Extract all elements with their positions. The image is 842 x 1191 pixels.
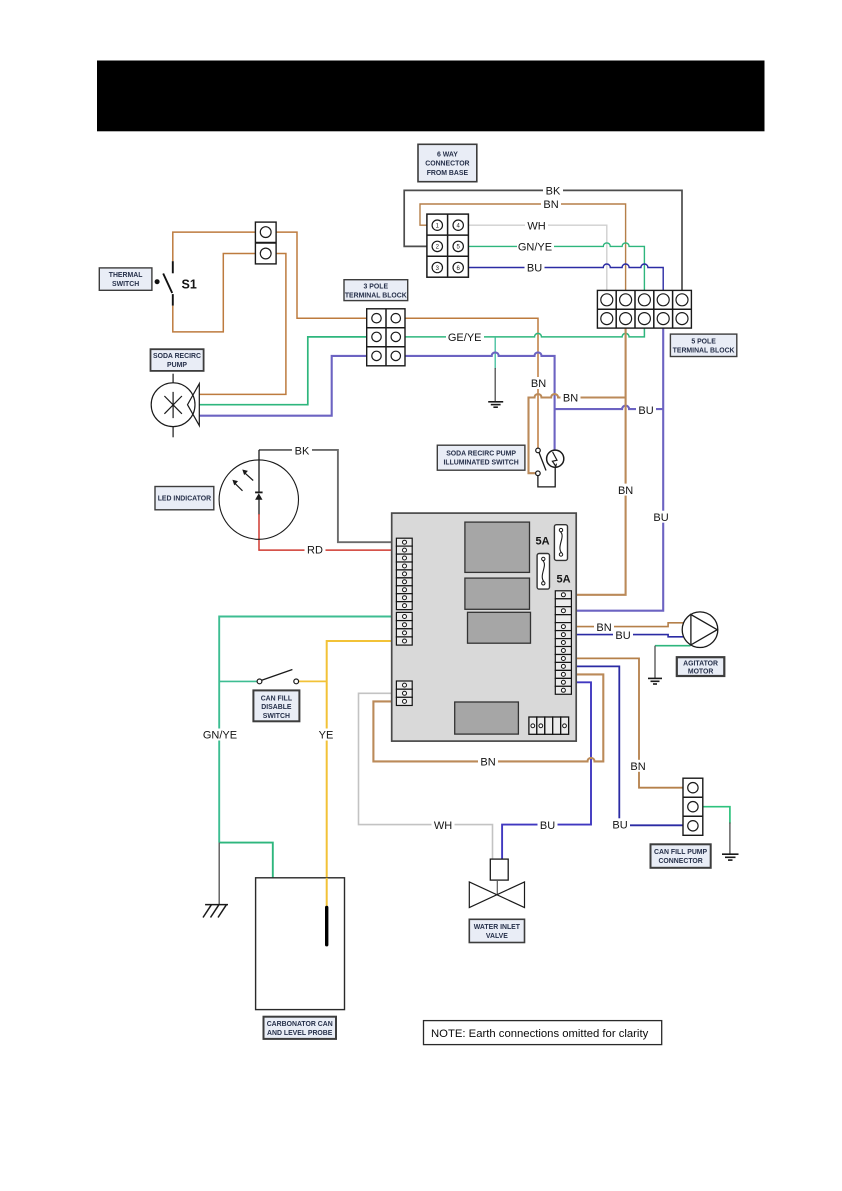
svg-text:SWITCH: SWITCH	[112, 281, 139, 288]
wire WH: 6-way pin4 across to 5-pole terminal 1	[458, 225, 607, 300]
svg-text:WH: WH	[527, 220, 545, 232]
terminal strip: controller left upper (9 poles)	[396, 538, 412, 609]
net label BK (LED top)	[292, 444, 312, 457]
lamp: illuminated switch lamp with flash symbol	[547, 450, 564, 467]
svg-text:ILLUMINATED SWITCH: ILLUMINATED SWITCH	[443, 460, 518, 467]
connector J1 pin 5	[453, 241, 463, 251]
svg-text:MOTOR: MOTOR	[688, 669, 714, 676]
svg-text:VALVE: VALVE	[486, 933, 508, 940]
wire BU: controller right cell10 long run down to can fill pump connector pin3	[563, 666, 684, 825]
wire BN: 3-pole row1 right across and down to illuminated switch top	[396, 318, 538, 448]
wire BN: controller right cell9 down to can fill pump connector pin1	[563, 658, 684, 787]
connector J1 pin 3	[432, 262, 442, 272]
net label BN (can fill pump vertical)	[628, 760, 648, 773]
wire BU: 5-pole terminal 4 long vertical down to controller right terminal 3 (violet)	[563, 319, 663, 611]
connector J1: 6 way connector from base (2x3 cells)	[427, 214, 469, 277]
ground: earth symbol below can fill pump connector	[722, 854, 739, 860]
wire GN: branch to can fill disable switch left terminal	[219, 680, 257, 682]
net label BN (bottom loop run)	[478, 755, 498, 768]
wire WH: controller bottom-left terminal 2 to water inlet valve	[359, 693, 493, 859]
svg-text:SWITCH: SWITCH	[263, 713, 290, 720]
label: AGITATOR MOTOR	[677, 657, 725, 676]
wire GN: agitator motor to earth	[655, 645, 691, 647]
label: SODA RECIRC PUMP ILLUMINATED SWITCH	[437, 445, 525, 470]
connector J1 pin 6	[453, 262, 463, 272]
carbonator can outline	[256, 878, 345, 1010]
wire BN: controller right cell11 loop under board to bottom-left terminal 3, hops BU	[373, 674, 603, 761]
svg-text:BU: BU	[615, 630, 630, 642]
svg-text:BU: BU	[540, 820, 555, 832]
wire BN: branch at y397 from col2 vertical to illuminated switch bottom, hops BU and BN	[529, 394, 626, 473]
pump M1: soda recirc pump symbol	[172, 374, 174, 438]
wire RD: LED indicator bottom to controller left terminal 2 (red)	[259, 514, 400, 550]
svg-text:NOTE: Earth connections omitte: NOTE: Earth connections omitted for clar…	[431, 1028, 649, 1040]
node: thermal switch pointer dot	[155, 279, 160, 284]
connector J1 pin 2	[432, 241, 442, 251]
terminal block TB2: 3 pole terminal block (2x3)	[367, 309, 405, 366]
wire: LED anode lead inside circle (black)	[258, 450, 260, 492]
wire BN: 2-pole block top to 3-pole block row1 left	[266, 232, 377, 318]
wire BN: controller right cell5 to agitator motor	[563, 623, 684, 627]
svg-text:GE/YE: GE/YE	[448, 332, 482, 344]
svg-text:AND LEVEL PROBE: AND LEVEL PROBE	[267, 1030, 333, 1037]
fuse F2 5A (lower)	[537, 554, 549, 590]
controller U1: main control board	[392, 513, 577, 741]
net label BU (col4 vertical)	[651, 511, 671, 524]
net label BN (above switch hop)	[529, 377, 549, 390]
wire YE: segment inside carbonator can to probe	[326, 878, 328, 907]
terminal block: controller bottom-right (5 poles)	[529, 717, 569, 734]
net label BU (can fill pump run)	[610, 818, 630, 831]
ground: earth symbol below agitator motor	[648, 678, 662, 684]
net label BU (agitator run)	[613, 629, 633, 642]
svg-text:BK: BK	[295, 446, 310, 458]
switch S2: soda recirc pump illuminated switch	[536, 448, 546, 476]
svg-text:3 POLE: 3 POLE	[364, 283, 389, 290]
svg-text:5A: 5A	[557, 574, 571, 586]
terminal strip: controller left middle (4 poles)	[396, 612, 412, 645]
svg-text:BN: BN	[630, 761, 645, 773]
svg-text:CAN FILL: CAN FILL	[261, 695, 292, 702]
svg-text:CONNECTOR: CONNECTOR	[658, 858, 702, 865]
net label BU (branch run y409)	[636, 404, 656, 417]
svg-text:CARBONATOR CAN: CARBONATOR CAN	[267, 1021, 333, 1028]
net label BN (switch branch run)	[561, 391, 581, 404]
svg-text:BN: BN	[531, 378, 546, 390]
relay K3	[468, 612, 531, 643]
label: CAN FILL PUMP CONNECTOR	[651, 844, 711, 868]
svg-text:GN/YE: GN/YE	[203, 730, 237, 742]
wire GE/YE: 3-pole row2 right to 5-pole terminal 3 bottom, hops over two BN verticals	[396, 319, 645, 337]
wire BU: controller right terminal (cell12) to water inlet valve	[502, 682, 591, 859]
net label WH (water valve run)	[432, 819, 455, 832]
wire: grey drop from green junction to chassis ground	[218, 843, 220, 905]
svg-text:GN/YE: GN/YE	[518, 242, 552, 254]
label: WATER INLET VALVE	[469, 919, 524, 942]
label: SODA RECIRC PUMP	[151, 349, 204, 371]
svg-text:BN: BN	[596, 622, 611, 634]
net label WH (top run)	[525, 219, 548, 232]
svg-text:SODA RECIRC: SODA RECIRC	[153, 353, 201, 360]
label: LED INDICATOR	[155, 487, 214, 510]
svg-text:TERMINAL BLOCK: TERMINAL BLOCK	[673, 347, 735, 354]
wire BK: 6-way pin2 up and across to 5-pole terminal 5	[404, 190, 682, 299]
svg-text:LED INDICATOR: LED INDICATOR	[158, 496, 211, 503]
switch S3: can fill disable switch	[257, 670, 299, 684]
net label BU (top run)	[525, 262, 545, 275]
relay K1	[465, 522, 530, 572]
fuse F1 5A (upper)	[554, 525, 567, 561]
valve V1: water inlet valve coil box	[490, 859, 508, 880]
terminal block TB3: 5 pole terminal block (5x2)	[597, 290, 691, 328]
net label BN (top run)	[541, 198, 561, 211]
label: 3 POLE TERMINAL BLOCK	[344, 280, 408, 301]
svg-text:WATER INLET: WATER INLET	[474, 924, 521, 931]
svg-text:FROM BASE: FROM BASE	[427, 170, 469, 177]
net label BK (top run)	[543, 184, 563, 197]
svg-text:SODA RECIRC PUMP: SODA RECIRC PUMP	[446, 450, 516, 457]
wire: lamp bottom loop to switch bottom terminal (black)	[538, 467, 555, 487]
svg-text:CONNECTOR: CONNECTOR	[425, 161, 469, 168]
net label GE/YE (3-pole to 5-pole run)	[446, 331, 484, 344]
svg-text:AGITATOR: AGITATOR	[683, 660, 718, 667]
label: THERMAL SWITCH	[99, 268, 152, 290]
connector J2: can fill pump connector (3 poles)	[683, 778, 703, 835]
note: earth connections note box	[424, 1021, 662, 1045]
wire BN: thermal switch S1 top to 2-pole terminal block top	[173, 232, 266, 261]
terminal strip: controller right (13 poles)	[555, 591, 571, 694]
probe: level probe inside can	[325, 908, 328, 945]
svg-text:5A: 5A	[536, 536, 550, 548]
wire GN: can fill pump connector pin2 to earth	[693, 807, 730, 824]
wire BU: soda recirc pump to 3-pole block row3 left (violet)	[200, 356, 377, 416]
wire: grey drop to earth below can fill pump connector	[729, 823, 731, 855]
svg-text:6 WAY: 6 WAY	[437, 151, 458, 158]
svg-text:DISABLE: DISABLE	[261, 704, 292, 711]
terminal block TB1: 2-pole block above thermal switch	[255, 222, 276, 264]
svg-text:BU: BU	[527, 263, 542, 275]
svg-text:BU: BU	[612, 820, 627, 832]
label: CAN FILL DISABLE SWITCH	[253, 690, 299, 721]
thermal switch S1	[163, 261, 173, 305]
wire BN: 5-pole terminal 2 long vertical down to controller right terminal 1	[563, 319, 625, 595]
wire BK: LED indicator top to controller left terminal 1 (grey)	[259, 450, 400, 542]
wire BU: controller right cell6 to agitator motor	[563, 635, 684, 637]
svg-text:BK: BK	[546, 186, 561, 198]
svg-text:WH: WH	[434, 820, 452, 832]
wire: grey drop from agitator green to earth symbol	[654, 646, 656, 679]
wire YE: can fill disable switch right terminal stub	[298, 680, 326, 682]
label: 6 WAY CONNECTOR FROM BASE	[418, 144, 477, 181]
wire BN: 6-way pin1 up and across to 5-pole terminal 2	[420, 204, 626, 300]
wire: earth drop from GE/YE line (teal then grey)	[494, 337, 496, 369]
valve V1: bowtie valve body	[469, 882, 524, 908]
svg-text:TERMINAL BLOCK: TERMINAL BLOCK	[345, 292, 407, 299]
svg-text:YE: YE	[319, 730, 334, 742]
label: 5 POLE TERMINAL BLOCK	[670, 334, 736, 356]
wire YE: controller left to carbonator can level probe	[327, 641, 400, 907]
svg-text:CAN FILL PUMP: CAN FILL PUMP	[654, 849, 707, 856]
svg-text:BN: BN	[480, 757, 495, 769]
title block (redacted, solid black)	[97, 61, 765, 132]
svg-text:S1: S1	[182, 278, 197, 292]
net label BN (col2 vertical)	[616, 484, 636, 497]
net label YE (level probe vertical)	[316, 729, 336, 742]
wire GN: soda recirc pump to 3-pole block row2 left	[200, 337, 377, 405]
terminal strip: controller bottom-left (3 poles)	[396, 681, 412, 705]
LED indicator D1	[219, 460, 298, 539]
wire BU: 3-pole row3 right across (hops earth drop and BN) down to lamp (violet)	[396, 352, 555, 450]
svg-text:BN: BN	[543, 199, 558, 211]
wire BN: thermal switch S1 bottom loop to 2-pole block bottom	[173, 254, 266, 332]
svg-text:PUMP: PUMP	[167, 362, 187, 369]
svg-text:BN: BN	[563, 393, 578, 405]
wire GN/YE: 6-way pin5 across to 5-pole terminal 3, hops over WH and BN	[458, 243, 644, 300]
wire GN/YE: controller left to can fill disable switch and down to chassis ground (teal)	[219, 617, 400, 843]
svg-text:BU: BU	[638, 405, 653, 417]
ground: earth symbol under GE/YE drop	[488, 402, 503, 407]
svg-text:BU: BU	[653, 512, 668, 524]
svg-text:BN: BN	[618, 485, 633, 497]
connector J1 pin 1	[432, 220, 442, 230]
net label GN/YE (top run)	[517, 240, 554, 253]
label: CARBONATOR CAN AND LEVEL PROBE	[264, 1017, 337, 1039]
wire BU: 6-way pin6 across to 5-pole terminal 4, hops over WH BN GN	[458, 264, 663, 300]
wire BN: 2-pole block bottom down to soda recirc pump	[200, 254, 286, 395]
motor M2: agitator motor	[682, 612, 718, 648]
valve V1: stem	[496, 880, 498, 895]
svg-text:RD: RD	[307, 545, 323, 557]
module: bottom dark block on controller	[455, 702, 519, 734]
wire GN: down-leg into carbonator can top	[219, 843, 273, 878]
svg-text:THERMAL: THERMAL	[109, 272, 143, 279]
svg-text:5 POLE: 5 POLE	[691, 338, 716, 345]
net label BU (water valve run)	[538, 819, 558, 832]
net label BN (agitator run)	[594, 621, 614, 634]
relay K2	[465, 578, 530, 609]
net label RD (LED bottom)	[305, 543, 326, 556]
wire BU: branch at y409 from lamp drop to 5-pole col4 vertical (violet)	[555, 406, 664, 410]
ground: chassis ground symbol lower left	[203, 905, 228, 918]
net label GN/YE (left vertical)	[202, 729, 239, 742]
connector J1 pin 4	[453, 220, 463, 230]
